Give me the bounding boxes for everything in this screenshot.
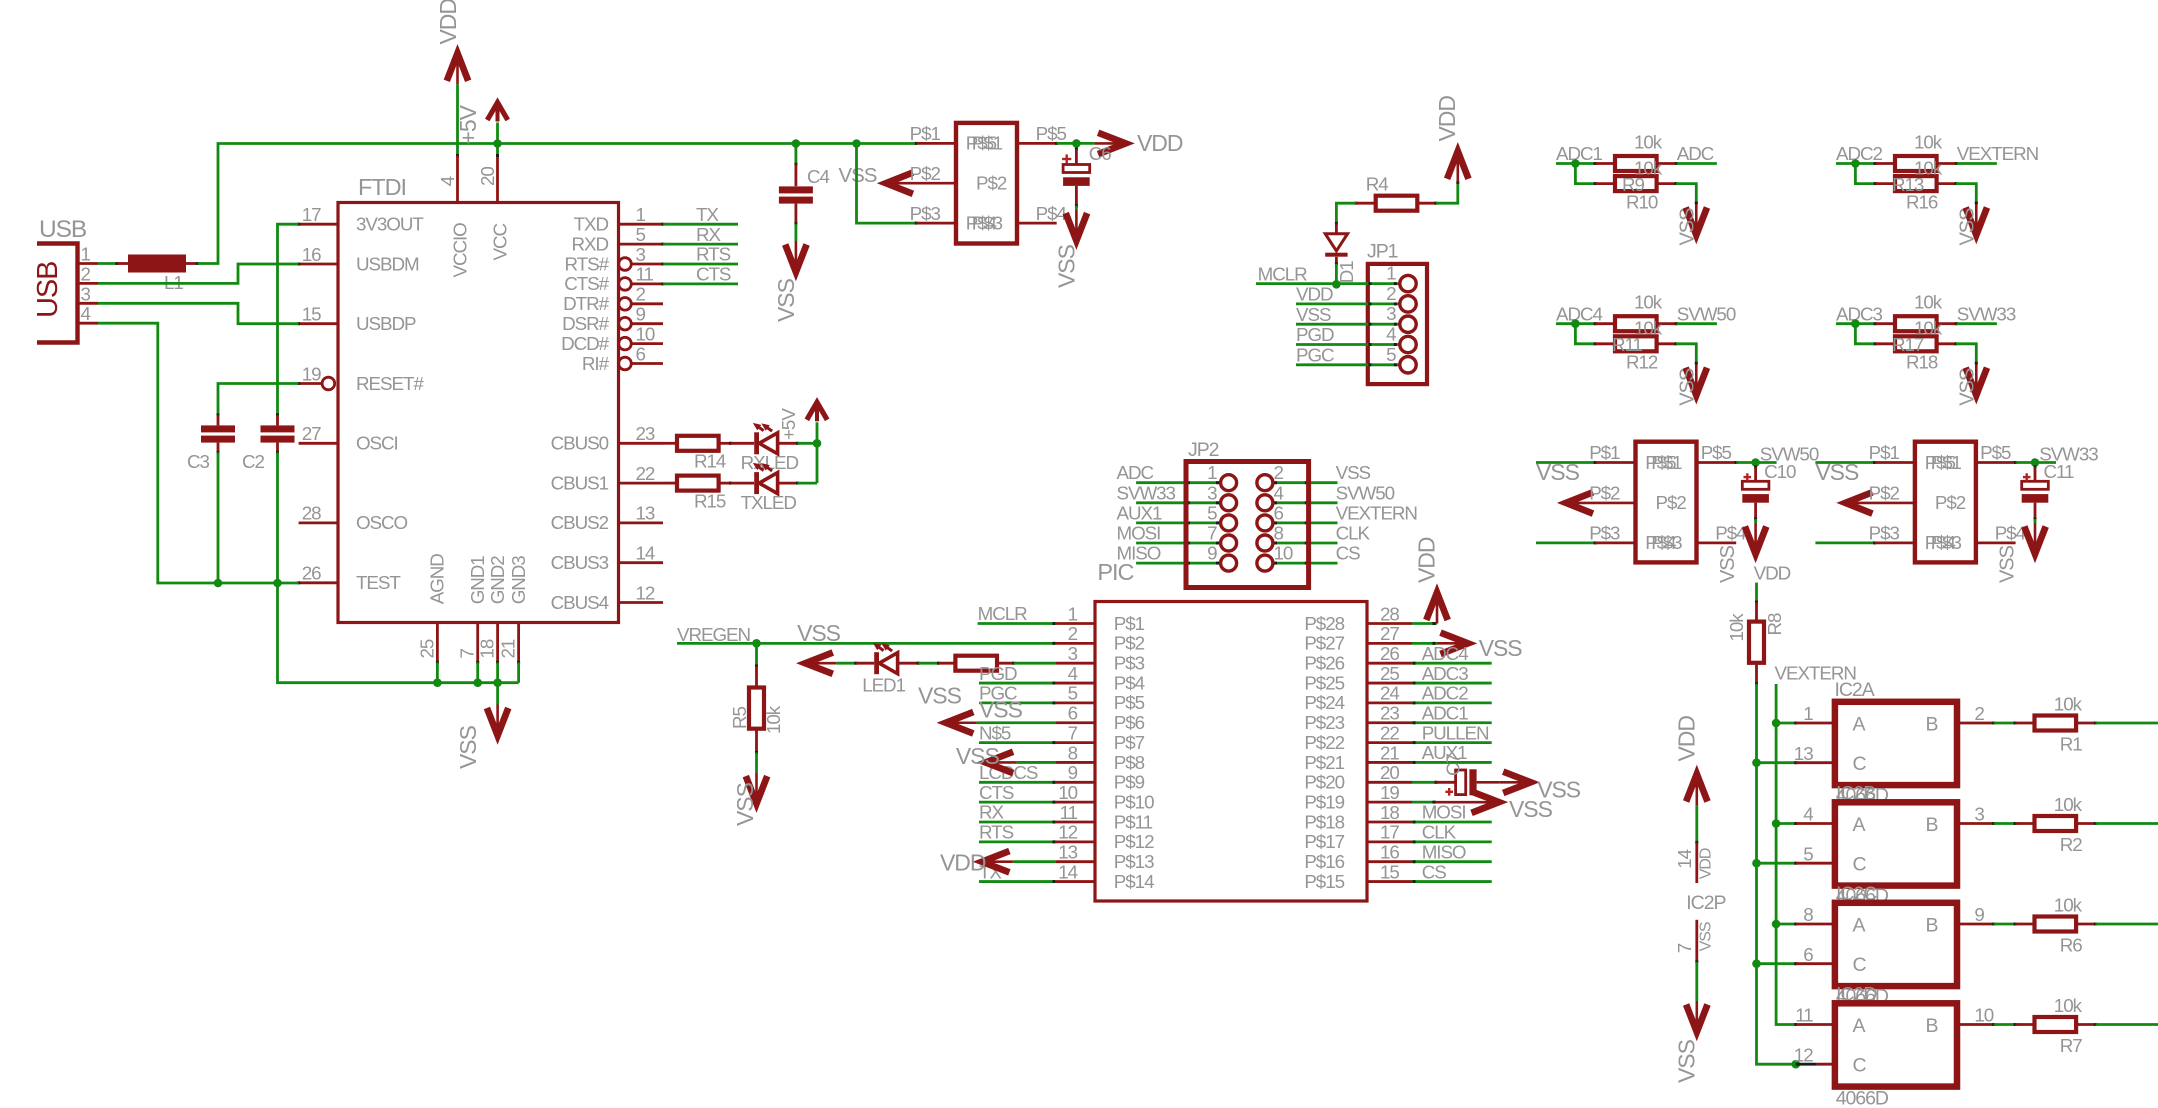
svg-text:12: 12 [636, 582, 655, 603]
supply VSS C6 [1066, 210, 1087, 241]
svg-text:GND1: GND1 [467, 556, 488, 605]
capacitor C3 [201, 415, 235, 454]
svg-text:PGD: PGD [1296, 324, 1334, 345]
net label RX PIC [979, 802, 1005, 823]
label VSS P1 SVW50 [1536, 459, 1580, 485]
net label ADC1 PIC [1422, 702, 1469, 723]
pin 3 JP1 [1386, 303, 1416, 332]
net label PGD PIC [979, 663, 1017, 684]
svg-text:P$5: P$5 [1980, 442, 2011, 463]
label FTDI [358, 174, 406, 200]
svg-text:VSS: VSS [979, 696, 1023, 722]
svg-text:P$27: P$27 [1304, 633, 1344, 654]
pin 11 IC2D A [1795, 1005, 1835, 1026]
label PIC [1097, 559, 1134, 585]
svg-text:CBUS1: CBUS1 [551, 472, 609, 493]
pin 13 IC2A C [1757, 743, 1835, 764]
pin 14 PIC [1056, 861, 1154, 892]
pin P$1 SVW33 [1869, 442, 1962, 473]
label IC2A [1835, 679, 1875, 701]
label VSS pin19 [1509, 796, 1553, 822]
svg-text:26: 26 [1380, 643, 1399, 664]
wire MISO PIC [1412, 860, 1492, 863]
svg-text:OSCO: OSCO [356, 512, 408, 533]
wire VDD JP1 [1296, 302, 1400, 305]
wire ADC JP2 [1136, 481, 1221, 484]
pin 6 IC2C C [1757, 944, 1835, 965]
svg-text:SVW50: SVW50 [1336, 482, 1395, 503]
connector USB [32, 244, 78, 343]
pin 14 CBUS3 [551, 543, 663, 574]
net label CS JP2 [1336, 543, 1361, 564]
label VSS C6 [1054, 244, 1080, 288]
label C4 [807, 166, 830, 187]
net label CS PIC [1422, 861, 1447, 882]
svg-text:20: 20 [1380, 762, 1399, 783]
wire P$5 to VDD [1057, 139, 1095, 148]
svg-text:TXD: TXD [574, 214, 609, 235]
label USB [39, 216, 87, 243]
svg-text:PGC: PGC [1296, 345, 1334, 366]
label +5V top [455, 104, 481, 144]
wire ADC1 [1556, 159, 1597, 168]
svg-text:CS: CS [1336, 543, 1361, 564]
net label RTS PIC [979, 822, 1014, 843]
pin P$4 SVW33 [1976, 523, 2026, 544]
pin 2 USB [78, 263, 99, 284]
svg-text:MCLR: MCLR [978, 603, 1028, 624]
value 10k R13 [1914, 131, 1943, 152]
svg-text:5: 5 [1386, 344, 1396, 365]
svg-text:R6: R6 [2060, 934, 2083, 955]
svg-text:11: 11 [636, 264, 654, 285]
net label ADC2 PIC [1422, 683, 1469, 704]
pin 20 PIC [1304, 762, 1412, 793]
wire CLK JP2 [1273, 542, 1338, 545]
svg-text:7: 7 [1207, 523, 1217, 544]
pin 21 PIC [1304, 742, 1412, 773]
svg-text:P$1: P$1 [972, 133, 1003, 154]
net label MCLR [1258, 264, 1308, 285]
resistor R14 [663, 436, 732, 451]
pin 5 JP2 [1207, 502, 1237, 531]
svg-text:ADC: ADC [1677, 143, 1714, 164]
svg-text:18: 18 [477, 639, 498, 658]
svg-text:P$18: P$18 [1304, 811, 1344, 832]
LED TXLED [731, 463, 800, 494]
LED RXLED [731, 423, 800, 454]
svg-text:ADC3: ADC3 [1422, 663, 1469, 684]
value 10k R10 [1634, 157, 1663, 178]
svg-text:VDD: VDD [1296, 284, 1333, 305]
capacitor C4 [779, 144, 813, 242]
wire to R12 [1575, 324, 1596, 344]
svg-text:MOSI: MOSI [1117, 523, 1161, 544]
resistor R11 [1595, 316, 1678, 331]
svg-text:9: 9 [1974, 904, 1984, 925]
capacitor C6 [1063, 143, 1090, 209]
svg-text:CTS: CTS [696, 264, 731, 285]
svg-text:P$6: P$6 [1114, 712, 1145, 733]
label VSS R12 [1676, 368, 1698, 406]
label VDD JP1 [1434, 96, 1460, 142]
value 10k R11 [1634, 292, 1663, 313]
svg-text:8: 8 [1803, 904, 1813, 925]
net label RX [696, 224, 722, 245]
pin 1 JP2 [1207, 462, 1237, 491]
svg-text:R1: R1 [2060, 733, 2083, 754]
svg-text:10k: 10k [1914, 292, 1943, 313]
svg-text:P$2: P$2 [976, 173, 1007, 194]
wire CTS PIC [979, 801, 1056, 804]
label VSS R10 [1676, 208, 1698, 246]
power pins IC2P [1686, 774, 1707, 1032]
wire R4 to D1 [1336, 203, 1355, 225]
wire CS JP2 [1273, 562, 1338, 565]
net label VSS JP2 [1336, 462, 1371, 483]
resistor R9 [1595, 156, 1678, 171]
svg-text:P$3: P$3 [972, 212, 1003, 233]
net label MCLR PIC [978, 603, 1028, 624]
svg-text:ADC3: ADC3 [1836, 303, 1883, 324]
value 4066D IC2C [1836, 984, 1889, 1008]
svg-text:3V3OUT: 3V3OUT [356, 214, 424, 235]
svg-text:23: 23 [636, 423, 655, 444]
svg-text:P$1: P$1 [1869, 442, 1900, 463]
svg-text:18: 18 [1380, 802, 1399, 823]
svg-text:CBUS0: CBUS0 [551, 433, 609, 454]
supply VDD pin13 PIC [982, 851, 1056, 872]
pin 6 JP2 [1257, 502, 1284, 531]
svg-text:B: B [1926, 914, 1938, 936]
label R14 [694, 451, 726, 472]
value 10k R2 [2054, 794, 2083, 815]
pin 5 IC2B C [1757, 843, 1835, 864]
svg-text:14: 14 [1058, 861, 1077, 882]
svg-text:DTR#: DTR# [563, 293, 609, 314]
wire rail to GND pins [278, 583, 519, 687]
svg-text:7: 7 [457, 649, 478, 659]
resistor R15 [663, 476, 732, 491]
pin P$2 reg VSS arrow [886, 163, 1007, 194]
svg-text:A: A [1853, 914, 1866, 936]
label D1 [1336, 261, 1357, 284]
pin 10 DCD# [561, 323, 663, 354]
wire ADC3 [1836, 319, 1877, 328]
pin 14 IC2P [1674, 848, 1715, 879]
wire R5 to VSS [755, 753, 758, 773]
value 10k R6 [2054, 894, 2083, 915]
svg-text:P$3: P$3 [1869, 523, 1900, 544]
supply VSS pin27 [1437, 633, 1468, 654]
resistor R17 [1875, 316, 1958, 331]
svg-text:10k: 10k [1634, 131, 1663, 152]
svg-text:VSS: VSS [1698, 922, 1715, 951]
wire MCLR [1256, 282, 1400, 285]
svg-text:P$2: P$2 [1935, 492, 1966, 513]
supply VSS R12 [1686, 364, 1707, 395]
svg-text:10: 10 [636, 323, 655, 344]
label R2 [2060, 834, 2083, 855]
net label N$5 PIC [979, 722, 1011, 743]
wire R3 to pin3 [1014, 662, 1056, 665]
pin 1 TXD [574, 204, 665, 235]
wire arrow to LED1 [836, 662, 857, 665]
pin 25 PIC [1304, 663, 1412, 694]
svg-text:P$1: P$1 [1931, 452, 1962, 473]
svg-text:10k: 10k [2054, 693, 2083, 714]
pin P$5 SVW50 [1697, 442, 1738, 463]
svg-text:VSS: VSS [455, 725, 481, 769]
supply VSS pin6 PIC [946, 712, 1056, 733]
pin 27 PIC [1304, 623, 1412, 654]
label R7 [2060, 1035, 2083, 1056]
supply VSS R5 [746, 773, 767, 804]
wire 3V3OUT down [278, 224, 299, 416]
svg-text:P$3: P$3 [1651, 532, 1682, 553]
value 10k R12 [1634, 318, 1663, 339]
svg-text:A: A [1853, 713, 1866, 735]
label VSS P1 SVW33 [1815, 459, 1859, 485]
label JP1 [1367, 240, 1398, 262]
svg-text:C2: C2 [242, 451, 265, 472]
pin 5 RXD [571, 224, 664, 255]
svg-text:IC2A: IC2A [1835, 679, 1875, 701]
wire PGD JP1 [1296, 343, 1400, 346]
svg-text:1: 1 [1386, 263, 1396, 284]
wire pin27 VSS [1412, 642, 1437, 645]
label R12 [1626, 352, 1658, 373]
label VSS R5 [732, 782, 758, 826]
svg-text:P$9: P$9 [1114, 772, 1145, 793]
resistor R2 [2015, 816, 2097, 831]
svg-text:VDD: VDD [1698, 848, 1715, 879]
svg-text:10k: 10k [2054, 995, 2083, 1016]
svg-text:VSS: VSS [797, 620, 841, 646]
svg-text:VSS: VSS [773, 278, 799, 322]
svg-text:1: 1 [1803, 703, 1813, 724]
pin P$1 reg [910, 123, 1003, 154]
wire SVW50 JP2 [1273, 501, 1338, 504]
svg-text:2: 2 [1974, 703, 1984, 724]
wire PGC PIC [979, 702, 1056, 705]
svg-text:15: 15 [302, 304, 321, 325]
svg-text:RTS: RTS [979, 822, 1014, 843]
net label SVW50 [1677, 303, 1736, 324]
svg-text:P$2: P$2 [1114, 633, 1145, 654]
svg-text:R14: R14 [694, 451, 726, 472]
svg-text:20: 20 [477, 167, 498, 186]
svg-text:VDD: VDD [435, 0, 461, 45]
svg-text:3: 3 [1974, 804, 1984, 825]
wire net RTS [663, 263, 738, 266]
pin 12 IC2D C [1794, 1044, 1835, 1065]
pin 4 JP2 [1257, 482, 1284, 511]
net label ADC JP2 [1117, 462, 1154, 483]
pin 15 PIC [1304, 861, 1412, 892]
svg-text:10k: 10k [1726, 613, 1747, 642]
svg-text:5: 5 [1803, 843, 1813, 864]
capacitor C2 [261, 415, 295, 454]
junction C4 [792, 139, 801, 148]
svg-text:28: 28 [302, 503, 321, 524]
svg-text:A: A [1853, 1015, 1866, 1037]
svg-text:P$5: P$5 [1114, 692, 1145, 713]
label VSS IC2P [1674, 1039, 1700, 1083]
capacitor C7 [1436, 769, 1500, 795]
svg-text:P$24: P$24 [1304, 692, 1344, 713]
svg-text:VSS: VSS [732, 782, 758, 826]
label VSS C7 [1537, 777, 1581, 803]
svg-text:+5V: +5V [455, 104, 481, 144]
pin 4 IC2B A [1776, 804, 1835, 825]
pin 3 PIC [1056, 643, 1145, 674]
wire R18 to VSS [1956, 344, 1976, 365]
svg-text:USB: USB [39, 216, 87, 243]
pin 1 PIC [1056, 603, 1145, 634]
svg-text:P$2: P$2 [910, 163, 941, 184]
net label MISO PIC [1422, 841, 1466, 862]
wire N$5 PIC [979, 741, 1056, 744]
wire RESET to C3 [218, 384, 299, 417]
pin 1 JP1 [1386, 263, 1416, 292]
wire R7 out [2096, 1023, 2158, 1026]
wire PULLEN PIC [1412, 741, 1492, 744]
wire R1 out [2096, 722, 2158, 725]
svg-text:17: 17 [1380, 822, 1399, 843]
wire L1 to +5V rail [198, 144, 917, 264]
wire C2 to rail [276, 452, 279, 583]
pin 9 JP2 [1207, 543, 1237, 572]
svg-text:P$7: P$7 [1114, 732, 1145, 753]
LED LED1 [856, 643, 920, 674]
pin 22 CBUS1 [551, 463, 663, 494]
svg-text:C3: C3 [187, 451, 210, 472]
label R1 [2060, 733, 2083, 754]
svg-text:5: 5 [1068, 683, 1078, 704]
svg-text:MOSI: MOSI [1422, 802, 1466, 823]
net label SVW50 JP2 [1336, 482, 1395, 503]
pin 26 TEST [297, 563, 401, 594]
svg-text:P$14: P$14 [1114, 871, 1154, 892]
net label VEXTERN IC2 [1775, 663, 1857, 684]
wire USB 2 to USBDM [98, 264, 299, 283]
value 10k R18 [1914, 318, 1943, 339]
wire RXLED to +5V [798, 439, 822, 448]
resistor R10 [1595, 176, 1677, 191]
label VSS pin6 [979, 696, 1023, 722]
net label CLK JP2 [1336, 523, 1371, 544]
net label VSS JP1 [1296, 304, 1331, 325]
label VSS pin27 [1479, 635, 1523, 661]
svg-text:16: 16 [302, 244, 321, 265]
pin 5 JP1 [1386, 344, 1416, 373]
wire R8 bus [1752, 684, 1800, 1069]
svg-text:7: 7 [1068, 722, 1078, 743]
wire CLK PIC [1412, 840, 1492, 843]
svg-text:VSS: VSS [918, 683, 962, 709]
analog switch IC2D [1835, 1003, 1957, 1086]
pin 9 PIC [1056, 762, 1145, 793]
wire R4 to VDD [1436, 181, 1458, 203]
svg-text:4: 4 [81, 303, 91, 324]
svg-text:R2: R2 [2060, 834, 2083, 855]
label VSS pin8 [956, 743, 1000, 769]
IC regulator SVW33 [1915, 442, 1976, 563]
pin 7 IC2P [1674, 922, 1715, 953]
pin 7 PIC [1056, 722, 1145, 753]
pin 19 PIC [1304, 782, 1412, 813]
resistor R12 [1595, 336, 1677, 351]
wire R16 to VSS [1956, 184, 1976, 205]
svg-text:VEXTERN: VEXTERN [1336, 502, 1418, 523]
pin 1 USB [78, 244, 99, 265]
wire ADC [1677, 162, 1717, 165]
net label CTS [696, 264, 731, 285]
svg-text:SVW33: SVW33 [1117, 482, 1176, 503]
pin 18 GND2 [477, 556, 508, 683]
pin 27 OSCI [299, 423, 398, 454]
svg-text:13: 13 [1058, 842, 1077, 863]
junction reg P3 [852, 139, 861, 148]
supply VSS C4 [785, 241, 806, 272]
value 10k R9 [1634, 131, 1663, 152]
label R18 [1906, 352, 1938, 373]
svg-text:TX: TX [696, 204, 719, 225]
label IC2P [1686, 892, 1725, 914]
svg-text:10: 10 [1058, 782, 1077, 803]
wire R2 out [2096, 822, 2158, 825]
net label ADC4 [1556, 303, 1603, 324]
pin 3 USB [78, 283, 99, 304]
label R10 [1626, 191, 1658, 212]
value 4066D IC2B [1836, 883, 1889, 907]
label VSS R16 [1956, 208, 1978, 246]
supply +5V LEDs [807, 402, 827, 443]
svg-text:USBDP: USBDP [356, 313, 416, 334]
pin 15 USBDP [297, 304, 416, 335]
svg-text:10k: 10k [763, 705, 784, 734]
label VSS C10 [1717, 545, 1739, 583]
supply VSS pin19 [1436, 791, 1499, 812]
wire B to R6 [1994, 923, 2017, 926]
net label SVW33 JP2 [1117, 482, 1176, 503]
svg-text:4066D: 4066D [1836, 1087, 1889, 1108]
net label RTS [696, 244, 731, 265]
svg-text:2: 2 [636, 284, 646, 305]
pin P$2 SVW33 VSS arrow [1845, 483, 1965, 514]
pin 23 PIC [1304, 703, 1412, 734]
svg-text:VSS: VSS [1509, 796, 1553, 822]
wire B to R7 [1994, 1023, 2017, 1026]
net label CLK PIC [1422, 822, 1457, 843]
plus C10 [1744, 473, 1752, 481]
pin 4 PIC [1056, 663, 1145, 694]
wire RTS PIC [979, 840, 1056, 843]
svg-text:13: 13 [1794, 743, 1813, 764]
svg-text:R12: R12 [1626, 352, 1658, 373]
pin 16 USBDM [297, 244, 419, 275]
net label PGC JP1 [1296, 345, 1334, 366]
wire net CTS [663, 282, 738, 285]
wire USB 4 to GND rail [98, 323, 299, 587]
resistor R4 [1354, 196, 1437, 211]
plus C11 [2023, 473, 2031, 481]
svg-text:25: 25 [1380, 663, 1399, 684]
pin 11 CTS# [564, 264, 664, 295]
svg-text:21: 21 [498, 639, 519, 658]
svg-text:3: 3 [636, 244, 646, 265]
